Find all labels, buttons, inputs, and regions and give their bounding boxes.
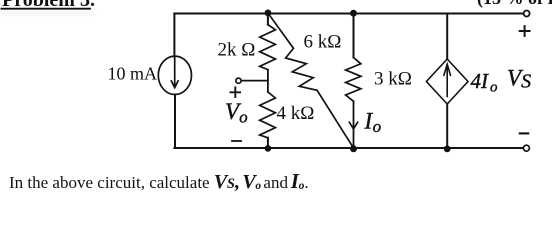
title Problem 3. (cut off at top) — [2, 0, 95, 12]
terminal Vs bottom — [523, 145, 529, 151]
resistor R 6k diagonal — [268, 13, 354, 148]
wire 2k to 4k — [267, 70, 269, 92]
wire 2k top lead — [267, 13, 269, 25]
svg-text:VS: VS — [507, 66, 531, 93]
current source I1 arrow — [171, 58, 178, 88]
resistor R 2k zigzag — [260, 25, 276, 70]
svg-text:4 kΩ: 4 kΩ — [277, 103, 315, 124]
title underline — [2, 8, 91, 10]
wire Vo+ lead — [242, 80, 268, 82]
svg-text:Io: Io — [364, 109, 382, 137]
svg-text:3 kΩ: 3 kΩ — [374, 69, 412, 90]
wire top rail — [174, 13, 523, 15]
dependent source 4Io diamond — [426, 59, 468, 104]
wire dependent source bottom lead — [446, 104, 448, 148]
minus sign Vs — [520, 132, 528, 134]
node bottom 4k junction — [265, 145, 272, 152]
wire dependent source top lead — [446, 14, 448, 60]
wire 3k bottom with Io arrow — [353, 101, 355, 148]
svg-text:4Io: 4Io — [471, 69, 499, 95]
dependent source arrow — [444, 64, 451, 96]
caption text — [9, 169, 309, 194]
node bottom Io junction — [350, 145, 357, 152]
wire left branch top — [173, 14, 175, 57]
wire bottom rail — [174, 147, 523, 149]
plus sign Vs — [520, 26, 530, 36]
svg-text:Vo: Vo — [225, 99, 248, 127]
svg-text:10 mA: 10 mA — [108, 64, 158, 84]
node top left junction — [265, 10, 272, 17]
terminal Vs top — [524, 11, 530, 17]
node bottom source junction — [444, 146, 451, 153]
svg-text:2k Ω: 2k Ω — [218, 40, 256, 61]
minus sign Vo — [232, 140, 241, 142]
resistor R 3k zigzag — [346, 58, 361, 102]
current source I1 circle — [158, 56, 191, 94]
svg-text:6 kΩ: 6 kΩ — [304, 32, 342, 53]
highlight artifact under title — [1, 11, 95, 16]
wire 3k top lead — [353, 13, 355, 58]
resistor R 4k zigzag — [260, 92, 276, 138]
wire 4k bottom lead — [267, 138, 269, 148]
wire left branch bottom — [174, 95, 176, 149]
header (15 % of H... (cut off at top right) — [477, 0, 552, 9]
plus sign Vo — [231, 88, 241, 98]
terminal Vo+ — [236, 78, 241, 83]
arrow Io head — [349, 122, 357, 129]
node top middle junction — [350, 10, 357, 17]
